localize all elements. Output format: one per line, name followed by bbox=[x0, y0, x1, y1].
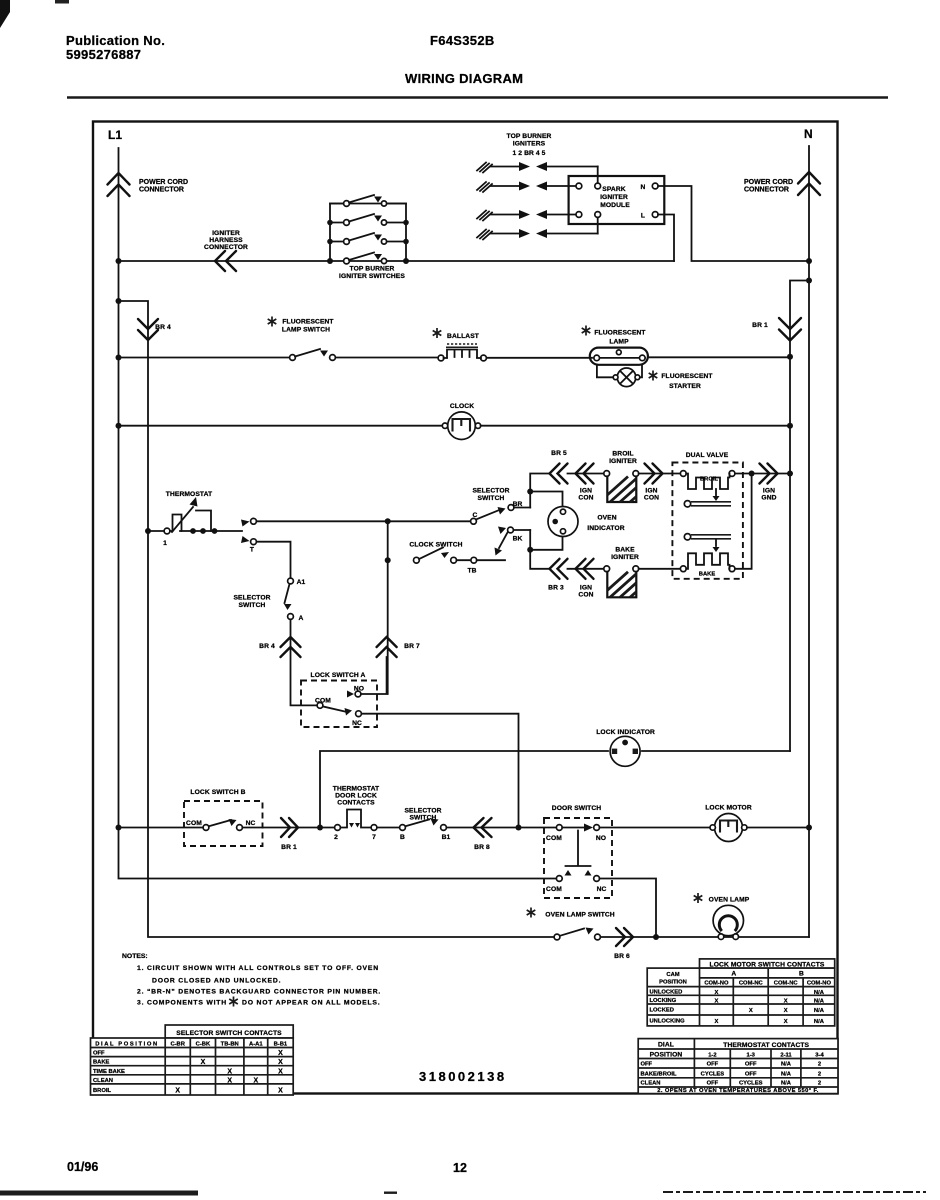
switch S3 row 3 bbox=[330, 241, 406, 243]
svg-text:IGNITER: IGNITER bbox=[609, 458, 637, 465]
junction valve output bbox=[749, 471, 755, 477]
svg-text:N/A: N/A bbox=[781, 1062, 792, 1068]
svg-text:HARNESS: HARNESS bbox=[209, 237, 243, 244]
selector switch blade C to BR bbox=[476, 511, 498, 520]
svg-text:NO: NO bbox=[596, 835, 606, 842]
svg-text:SELECTOR: SELECTOR bbox=[472, 488, 509, 495]
wire broil feed rail bbox=[530, 474, 549, 508]
switch S9 lower contact NC bbox=[594, 876, 600, 882]
svg-text:CONTACTS: CONTACTS bbox=[337, 800, 375, 807]
thermostat TH1 sensing switch symbol bbox=[163, 497, 211, 547]
switch S9 upper blade closed to NO bbox=[562, 827, 584, 829]
thermostat TH1 door lock cam bump contact bbox=[340, 810, 371, 828]
svg-text:BR 7: BR 7 bbox=[404, 643, 420, 650]
svg-text:3. COMPONENTS WITH: 3. COMPONENTS WITH bbox=[137, 1000, 227, 1007]
selector switch contact A bbox=[288, 614, 294, 620]
svg-text:BR 8: BR 8 bbox=[474, 844, 490, 851]
junction clock row at L1 bbox=[116, 423, 122, 429]
junction oven indicator bottom branch bbox=[527, 547, 533, 553]
svg-text:X: X bbox=[278, 1068, 283, 1075]
svg-text:SWITCH: SWITCH bbox=[478, 495, 505, 502]
switch S9 upper contact NO bbox=[594, 825, 600, 831]
svg-text:5995276887: 5995276887 bbox=[66, 47, 141, 62]
selector switch contact A1 bbox=[288, 578, 294, 584]
label oven lamp with asterisk bbox=[694, 893, 703, 903]
svg-text:THERMOSTAT: THERMOSTAT bbox=[333, 786, 380, 793]
wire to selector B bbox=[377, 827, 400, 829]
svg-text:B1: B1 bbox=[442, 834, 451, 841]
wire B1 to BR8 chevrons bbox=[446, 827, 520, 829]
motor M2 lock motor bbox=[710, 814, 747, 842]
svg-text:BK: BK bbox=[513, 536, 523, 543]
svg-text:BAKE: BAKE bbox=[699, 572, 716, 578]
svg-text:X: X bbox=[278, 1050, 283, 1057]
wire jog from N rail to BR1 rail bbox=[790, 281, 809, 752]
junction clock row at BR1 rail bbox=[787, 423, 793, 429]
svg-text:IGN: IGN bbox=[645, 488, 657, 495]
junction bus at L1 bbox=[116, 258, 122, 264]
svg-text:THERMOSTAT: THERMOSTAT bbox=[166, 491, 213, 498]
svg-text:X: X bbox=[278, 1088, 283, 1095]
svg-text:N/A: N/A bbox=[814, 1019, 825, 1025]
wire top bus row L1 to spark module L wire bbox=[119, 260, 675, 262]
svg-text:DIAL POSITION: DIAL POSITION bbox=[95, 1042, 159, 1048]
svg-text:BR 1: BR 1 bbox=[281, 844, 297, 851]
wire igniter row1 drop to module pin bbox=[597, 167, 599, 187]
wire bake coil to output rail bbox=[735, 474, 752, 569]
junction lock row at L1 bbox=[116, 825, 122, 831]
svg-text:B: B bbox=[400, 834, 405, 841]
svg-text:COM: COM bbox=[186, 820, 202, 827]
switch S5 fluorescent lamp switch bbox=[290, 355, 296, 361]
svg-text:1 2 BR 4 5: 1 2 BR 4 5 bbox=[513, 150, 546, 157]
svg-text:C-BK: C-BK bbox=[196, 1042, 211, 1048]
valve Y1 bake armature bar bbox=[684, 534, 731, 540]
svg-text:IGN: IGN bbox=[763, 488, 775, 495]
svg-text:N/A: N/A bbox=[814, 1008, 825, 1014]
wire thermostat wiper segment with terminal dots bbox=[180, 530, 242, 532]
svg-text:NC: NC bbox=[246, 820, 256, 827]
indicator DS3 lock indicator light bbox=[610, 736, 640, 766]
svg-text:SELECTOR: SELECTOR bbox=[233, 595, 270, 602]
junction fluorescent row at BR1 rail bbox=[787, 354, 793, 360]
svg-text:LOCK MOTOR: LOCK MOTOR bbox=[705, 805, 752, 812]
svg-text:OFF: OFF bbox=[641, 1062, 653, 1068]
svg-text:OFF: OFF bbox=[707, 1081, 719, 1087]
heater HE2 bake igniter bbox=[604, 566, 639, 597]
motor M1 clock bbox=[442, 412, 480, 440]
thermostat TH1 lower throw contact T bbox=[241, 536, 250, 543]
svg-text:FLUORESCENT: FLUORESCENT bbox=[282, 319, 334, 326]
svg-text:A-A1: A-A1 bbox=[249, 1042, 263, 1048]
svg-text:IGNITERS: IGNITERS bbox=[513, 141, 546, 148]
junction lock motor at N rail bbox=[806, 825, 812, 831]
wire bake igniter to valve bbox=[639, 568, 681, 570]
wire L1 branch to backguard rail bbox=[119, 301, 555, 937]
label oven lamp switch with asterisk bbox=[527, 908, 536, 918]
connector IGN CON chevrons bake left bbox=[576, 559, 594, 579]
switch S7 contact NC bbox=[356, 711, 362, 717]
svg-text:IGNITER: IGNITER bbox=[611, 554, 639, 561]
svg-text:A: A bbox=[731, 971, 736, 978]
svg-text:1-2: 1-2 bbox=[708, 1053, 716, 1059]
svg-text:X: X bbox=[227, 1077, 232, 1084]
svg-text:LOCK INDICATOR: LOCK INDICATOR bbox=[596, 729, 655, 736]
svg-text:NC: NC bbox=[597, 886, 607, 893]
svg-text:N/A: N/A bbox=[781, 1071, 792, 1077]
connector IGN GND chevrons bbox=[760, 464, 778, 484]
igniter E2 spark electrode and arrows row 2 bbox=[477, 182, 576, 193]
svg-text:LOCK MOTOR SWITCH CONTACTS: LOCK MOTOR SWITCH CONTACTS bbox=[710, 961, 825, 968]
wire selector feed rail down to lock switch A NO bbox=[387, 521, 389, 694]
wire igniter row4 rise to module pin bbox=[597, 215, 599, 234]
page corner scan mark bbox=[0, 0, 10, 28]
svg-text:DOOR SWITCH: DOOR SWITCH bbox=[552, 805, 601, 812]
label fluorescent starter with asterisk bbox=[649, 371, 658, 381]
switch S2 row 2 bbox=[330, 222, 406, 224]
svg-text:SWITCH: SWITCH bbox=[239, 602, 266, 609]
svg-text:DOOR LOCK: DOOR LOCK bbox=[335, 793, 377, 800]
svg-text:NC: NC bbox=[352, 720, 362, 727]
wire NC to lock row rail bbox=[361, 714, 518, 825]
wire ballast to fluorescent lamp bbox=[487, 357, 593, 359]
svg-text:CYCLES: CYCLES bbox=[739, 1081, 763, 1087]
svg-text:IGNITER SWITCHES: IGNITER SWITCHES bbox=[339, 273, 405, 280]
svg-text:OVEN LAMP: OVEN LAMP bbox=[709, 897, 750, 904]
svg-text:SELECTOR SWITCH CONTACTS: SELECTOR SWITCH CONTACTS bbox=[176, 1030, 282, 1037]
svg-text:BR 4: BR 4 bbox=[155, 324, 171, 331]
svg-text:BAKE: BAKE bbox=[615, 547, 635, 554]
diagram border frame bbox=[93, 122, 838, 1094]
svg-text:OFF: OFF bbox=[93, 1051, 105, 1057]
switch S10 oven lamp switch bbox=[554, 934, 560, 940]
svg-text:X: X bbox=[253, 1077, 258, 1084]
switch S9 lower contact COM bbox=[556, 876, 562, 882]
svg-text:COM-NO: COM-NO bbox=[704, 980, 729, 986]
connector BR5 chevrons on broil row bbox=[550, 464, 568, 484]
table lock motor switch contacts bbox=[647, 959, 835, 1026]
svg-text:WIRING DIAGRAM: WIRING DIAGRAM bbox=[405, 71, 523, 86]
svg-text:X: X bbox=[714, 1019, 718, 1025]
svg-text:1: 1 bbox=[163, 540, 167, 547]
wire selector A down to lock switch A COM bbox=[291, 619, 318, 705]
svg-text:SPARK: SPARK bbox=[602, 186, 625, 193]
svg-text:IGNITER: IGNITER bbox=[212, 230, 240, 237]
svg-text:B-B1: B-B1 bbox=[274, 1042, 288, 1048]
wire lock row to door lock contact bbox=[320, 827, 335, 829]
svg-text:STARTER: STARTER bbox=[669, 383, 701, 390]
svg-text:CLOCK: CLOCK bbox=[450, 403, 474, 410]
svg-text:THERMOSTAT CONTACTS: THERMOSTAT CONTACTS bbox=[723, 1042, 809, 1049]
wire module pin L to top bus bbox=[658, 215, 674, 262]
table selector switch contacts bbox=[91, 1025, 294, 1095]
connector igniter harness connector chevrons bbox=[215, 251, 236, 271]
connector BR1 chevrons (right) bbox=[281, 818, 298, 837]
wire chevrons to bake igniter bbox=[568, 568, 605, 570]
svg-text:N/A: N/A bbox=[781, 1081, 792, 1087]
svg-text:N/A: N/A bbox=[814, 999, 825, 1005]
svg-text:X: X bbox=[714, 999, 718, 1005]
svg-text:Publication No.: Publication No. bbox=[66, 33, 165, 48]
wire door switch NC to oven lamp row bbox=[600, 879, 657, 938]
wire lock motor to N rail bbox=[747, 827, 809, 829]
junction thermostat row at backguard rail bbox=[145, 528, 151, 534]
wire upper throw to selector C bbox=[257, 520, 471, 522]
wire module pin N to N rail bbox=[658, 186, 809, 261]
svg-text:DOOR CLOSED AND UNLOCKED.: DOOR CLOSED AND UNLOCKED. bbox=[152, 978, 281, 985]
svg-text:CONNECTOR: CONNECTOR bbox=[139, 187, 184, 194]
svg-text:OVEN LAMP SWITCH: OVEN LAMP SWITCH bbox=[545, 912, 615, 919]
switch S8 contact NC bbox=[237, 825, 243, 831]
connector P1 power cord connector chevrons (L1) bbox=[108, 173, 130, 196]
svg-text:DUAL VALVE: DUAL VALVE bbox=[686, 452, 729, 459]
connector P2 power cord connector chevrons (N) bbox=[798, 172, 820, 195]
wire lock indicator row bbox=[320, 751, 608, 828]
module U1 spark igniter module box bbox=[569, 176, 665, 224]
switch S7 lock switch A dashed box bbox=[301, 681, 377, 728]
svg-text:CAM: CAM bbox=[666, 972, 679, 978]
selector switch contact BK and blade bbox=[498, 527, 506, 535]
connector BR3 chevrons on bake row bbox=[550, 559, 568, 579]
wire lamp switch to BR6 bbox=[600, 936, 656, 938]
igniter E1 spark electrode and arrows row 1 bbox=[477, 162, 598, 173]
switch S9 upper contact COM bbox=[556, 825, 562, 831]
connector BR7 chevrons (up) bbox=[377, 637, 397, 657]
svg-text:TB: TB bbox=[467, 568, 476, 575]
bottom scan artifact lines bbox=[0, 1191, 198, 1196]
svg-text:COM-NC: COM-NC bbox=[774, 980, 799, 986]
svg-text:TIME BAKE: TIME BAKE bbox=[93, 1069, 125, 1075]
svg-text:L: L bbox=[641, 213, 645, 220]
svg-text:12: 12 bbox=[453, 1161, 467, 1175]
selector switch contact BR bbox=[508, 505, 514, 511]
valve Y1 broil armature bar bbox=[684, 501, 731, 507]
svg-text:N/A: N/A bbox=[814, 990, 825, 996]
svg-text:OFF: OFF bbox=[745, 1071, 757, 1077]
svg-text:BALLAST: BALLAST bbox=[447, 333, 480, 340]
svg-text:A: A bbox=[299, 615, 304, 622]
wire clock to BR1 rail bbox=[481, 425, 790, 427]
igniter E4 spark electrode and arrows row 4 bbox=[477, 229, 598, 240]
wire BK contact to bake rail bbox=[514, 529, 531, 531]
wire to oven indicator top bbox=[530, 492, 562, 508]
wire N rail vertical bbox=[808, 146, 810, 937]
svg-text:CONNECTOR: CONNECTOR bbox=[744, 187, 789, 194]
junction L1 branch bbox=[116, 298, 122, 304]
igniter E3 spark electrode and arrows row 3 bbox=[477, 210, 576, 221]
svg-text:NOTES:: NOTES: bbox=[122, 953, 148, 960]
table thermostat contacts bbox=[638, 1039, 838, 1094]
wire to oven indicator bottom bbox=[530, 536, 562, 550]
svg-text:X: X bbox=[784, 1019, 788, 1025]
svg-text:X: X bbox=[227, 1068, 232, 1075]
wire lamp switch to ballast bbox=[336, 357, 439, 359]
selector switch TB contact bbox=[471, 557, 477, 563]
switch S6 clock switch bbox=[414, 557, 420, 563]
junction at selector feed rail bbox=[385, 518, 391, 524]
svg-text:2: 2 bbox=[818, 1062, 821, 1068]
svg-text:2. “BR-N” DENOTES BACKGUARD CO: 2. “BR-N” DENOTES BACKGUARD CONNECTOR PI… bbox=[137, 989, 381, 996]
junction oven lamp row at door switch NC rail bbox=[653, 934, 659, 940]
wire bake feed rail bbox=[530, 530, 549, 569]
svg-text:COM-NO: COM-NO bbox=[807, 980, 832, 986]
junction clock switch row bbox=[385, 557, 391, 563]
inductor L2 ballast bbox=[438, 344, 486, 361]
svg-text:BAKE/BROIL: BAKE/BROIL bbox=[641, 1071, 678, 1077]
svg-text:BAKE: BAKE bbox=[93, 1060, 110, 1066]
svg-text:X: X bbox=[784, 999, 788, 1005]
thermostat TH1 door lock contact terminal 2 bbox=[335, 825, 341, 831]
selector switch blade B to B1 bbox=[405, 820, 429, 827]
switch S9 lower contact arrows open bbox=[565, 870, 572, 876]
svg-text:CONNECTOR: CONNECTOR bbox=[204, 244, 248, 251]
lamp DS4 oven lamp bbox=[713, 905, 743, 939]
heater HE1 broil igniter bbox=[604, 471, 639, 502]
svg-text:POWER CORD: POWER CORD bbox=[139, 179, 188, 186]
svg-text:POSITION: POSITION bbox=[650, 1052, 683, 1059]
svg-text:FLUORESCENT: FLUORESCENT bbox=[594, 330, 646, 337]
svg-text:OFF: OFF bbox=[745, 1062, 757, 1068]
svg-text:BR 5: BR 5 bbox=[551, 450, 567, 457]
svg-text:C-BR: C-BR bbox=[170, 1042, 185, 1048]
wire fluorescent lamp to BR1 rail bbox=[648, 356, 790, 358]
junction oven indicator top branch bbox=[527, 489, 533, 495]
svg-text:A1: A1 bbox=[297, 579, 306, 586]
svg-text:01/96: 01/96 bbox=[67, 1160, 98, 1174]
svg-text:SELECTOR: SELECTOR bbox=[404, 808, 441, 815]
svg-text:LOCK SWITCH A: LOCK SWITCH A bbox=[311, 672, 366, 679]
switch S7 blade COM to NC bbox=[323, 706, 345, 711]
svg-text:COM-NC: COM-NC bbox=[739, 980, 764, 986]
svg-text:POSITION: POSITION bbox=[659, 980, 687, 986]
svg-text:1. CIRCUIT SHOWN WITH ALL CONT: 1. CIRCUIT SHOWN WITH ALL CONTROLS SET T… bbox=[137, 965, 379, 972]
svg-text:N: N bbox=[804, 127, 813, 141]
svg-text:FLUORESCENT: FLUORESCENT bbox=[661, 373, 713, 380]
svg-text:OVEN: OVEN bbox=[597, 515, 616, 522]
svg-text:2. OPENS AT OVEN TEMPERATURES: 2. OPENS AT OVEN TEMPERATURES ABOVE 550°… bbox=[657, 1088, 819, 1094]
svg-text:N: N bbox=[641, 184, 646, 191]
svg-text:CLOCK SWITCH: CLOCK SWITCH bbox=[409, 542, 462, 549]
svg-text:X: X bbox=[749, 1008, 753, 1014]
starter V1 fluorescent starter bbox=[613, 368, 640, 387]
junction on N rail at BR1 jog bbox=[806, 278, 812, 284]
selector switch contact B1 bbox=[441, 825, 447, 831]
svg-text:COM: COM bbox=[546, 886, 562, 893]
svg-text:INDICATOR: INDICATOR bbox=[587, 525, 625, 532]
svg-text:OFF: OFF bbox=[707, 1062, 719, 1068]
connector IGN CON chevrons broil right bbox=[645, 464, 663, 484]
switch S4 row 4 on bus bbox=[344, 258, 350, 264]
svg-text:CON: CON bbox=[644, 495, 659, 502]
wire thermostat T throw to selector A1 bbox=[257, 542, 291, 578]
label ballast with asterisk bbox=[433, 328, 442, 338]
label fluorescent lamp with asterisk bbox=[582, 326, 591, 336]
switch S9 door switch dashed box bbox=[544, 818, 612, 898]
svg-text:F64S352B: F64S352B bbox=[430, 33, 495, 48]
wire L1 rail vertical bbox=[119, 148, 557, 879]
svg-text:UNLOCKED: UNLOCKED bbox=[650, 990, 683, 996]
svg-text:2-11: 2-11 bbox=[780, 1053, 792, 1059]
switch S1 top burner igniter switch row 1 bbox=[330, 203, 406, 205]
wire broil igniter to valve bbox=[639, 473, 681, 475]
junction lock row at indicator rail bbox=[317, 825, 323, 831]
svg-text:LAMP SWITCH: LAMP SWITCH bbox=[282, 327, 330, 334]
svg-text:BROIL: BROIL bbox=[93, 1088, 111, 1094]
svg-text:X: X bbox=[714, 990, 718, 996]
switch S8 lock switch B dashed box bbox=[184, 801, 263, 846]
svg-text:B: B bbox=[799, 971, 804, 978]
valve Y1 bake coil bbox=[680, 540, 735, 578]
wire to oven lamp bbox=[656, 936, 809, 938]
valve Y1 dual gas valve dashed enclosure bbox=[672, 463, 743, 579]
junction valve output at BR1 rail bbox=[787, 471, 793, 477]
wire thermostat row from backguard rail bbox=[148, 530, 164, 532]
svg-text:DIAL: DIAL bbox=[658, 1042, 674, 1049]
svg-text:BROIL: BROIL bbox=[612, 451, 633, 458]
svg-text:BR 6: BR 6 bbox=[614, 953, 630, 960]
wire fluorescent row from L1 to lamp switch bbox=[119, 357, 291, 359]
svg-text:1-3: 1-3 bbox=[747, 1053, 756, 1059]
svg-text:2: 2 bbox=[818, 1071, 821, 1077]
connector IGN CON chevrons broil left bbox=[576, 464, 594, 484]
switch bank S1-S4 top burner igniter switches frame rails bbox=[330, 204, 406, 262]
thermostat TH1 door lock contact terminal 7 bbox=[371, 825, 377, 831]
connector BR4 chevrons (down) on backguard rail bbox=[138, 319, 158, 340]
svg-text:318002138: 318002138 bbox=[419, 1069, 507, 1084]
svg-text:BR 4: BR 4 bbox=[259, 643, 275, 650]
connector BR6 chevrons (right) bbox=[616, 928, 633, 946]
svg-text:2: 2 bbox=[818, 1081, 821, 1087]
wire BR contact to broil rail bbox=[514, 507, 530, 509]
svg-text:3-4: 3-4 bbox=[815, 1053, 824, 1059]
svg-text:TB-BN: TB-BN bbox=[221, 1042, 239, 1048]
svg-text:LOCK SWITCH B: LOCK SWITCH B bbox=[190, 789, 245, 796]
wire starter loop bbox=[597, 365, 642, 378]
svg-text:X: X bbox=[201, 1059, 206, 1066]
module U1 pins bbox=[576, 183, 582, 189]
svg-text:X: X bbox=[784, 1008, 788, 1014]
svg-text:IGN: IGN bbox=[580, 585, 592, 592]
wire to door switch bbox=[519, 827, 557, 829]
switch S9 plunger link bbox=[566, 831, 591, 867]
svg-text:BR 3: BR 3 bbox=[548, 585, 564, 592]
svg-text:MODULE: MODULE bbox=[600, 202, 630, 209]
svg-text:2: 2 bbox=[334, 834, 338, 841]
svg-text:TOP BURNER: TOP BURNER bbox=[350, 266, 395, 273]
wire broil coil to output junction bbox=[735, 473, 752, 475]
svg-text:LOCKED: LOCKED bbox=[650, 1008, 674, 1014]
wire main lock row from L1 bbox=[119, 827, 203, 829]
connector BR1 chevrons (down) on indicator rail bbox=[779, 318, 801, 341]
connector BR4 chevrons (up) bbox=[281, 637, 301, 657]
junction fluorescent row at L1 bbox=[116, 355, 122, 361]
svg-text:DO NOT APPEAR ON ALL MODELS.: DO NOT APPEAR ON ALL MODELS. bbox=[242, 1000, 380, 1007]
wire chevrons to broil igniter bbox=[568, 473, 605, 475]
svg-text:GND: GND bbox=[761, 495, 776, 502]
wire NO to BR7 rail bbox=[361, 657, 387, 694]
junction lock row at lock switch A NC rail bbox=[516, 825, 522, 831]
junction on N rail at bus row bbox=[806, 258, 812, 264]
svg-text:IGN: IGN bbox=[580, 488, 592, 495]
svg-text:CLEAN: CLEAN bbox=[641, 1081, 661, 1087]
svg-text:LAMP: LAMP bbox=[609, 339, 629, 346]
svg-text:BR 1: BR 1 bbox=[752, 322, 768, 329]
svg-text:CLEAN: CLEAN bbox=[93, 1078, 113, 1084]
label fluorescent lamp switch with asterisk bbox=[268, 317, 277, 327]
wire door switch NO to lock motor bbox=[600, 827, 711, 829]
svg-text:L1: L1 bbox=[108, 128, 122, 142]
svg-text:7: 7 bbox=[372, 834, 376, 841]
